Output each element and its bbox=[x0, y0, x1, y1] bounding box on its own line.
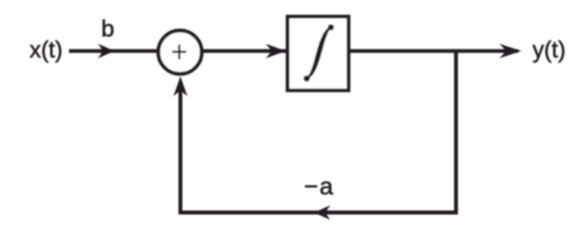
svg-text:b: b bbox=[101, 16, 114, 42]
svg-text:x(t): x(t) bbox=[30, 37, 63, 63]
svg-text:−a: −a bbox=[304, 173, 334, 200]
svg-text:y(t): y(t) bbox=[533, 37, 566, 63]
